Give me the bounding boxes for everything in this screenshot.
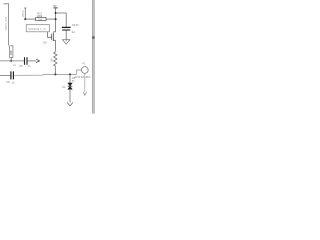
svg-text:1u: 1u [72,30,76,34]
svg-text:C8: C8 [6,80,10,84]
svg-text:C171: C171 [72,23,79,27]
ground (arrow small) [83,92,86,95]
wire [28,60,37,62]
wire antenna down [84,73,86,92]
svg-text:P1: P1 [82,61,86,65]
wire top-left corner net [4,4,9,46]
resistor R17 [36,11,46,21]
wire [46,18,56,20]
capacitor C6 [19,57,31,68]
ground (triangle) [63,40,70,44]
wire [54,67,56,74]
node junction [55,12,57,14]
node junction [54,73,56,75]
wire to C171 [56,13,67,27]
wire 5V column [55,8,57,32]
ground (arrow) [67,102,73,106]
node junction [69,73,71,75]
svg-text:VBUS_5V0: VBUS_5V0 [4,16,8,30]
capacitor C171 [62,23,79,34]
node on sheet line [92,36,94,39]
svg-text:VBUS: VBUS [22,10,25,17]
svg-text:ANTENNA: ANTENNA [74,75,90,79]
wire [25,18,35,20]
capacitor C8 [0,71,15,84]
power flag 5V [53,4,58,8]
resistor R8 (zigzag) [50,51,57,68]
wire [65,30,67,41]
svg-text:MOSFET_N: MOSFET_N [28,27,45,31]
svg-text:C6: C6 [19,64,23,68]
node junction [55,18,57,20]
fuse F1 [9,46,13,61]
svg-text:10R: 10R [9,50,13,55]
transistor Q4 [43,32,55,51]
node junction [24,18,26,20]
wire RF line [14,70,82,75]
label box MOSFET_N [26,25,51,38]
antenna connector P1 [81,61,88,73]
wire mid-left [0,60,24,62]
net stub with label [22,8,26,20]
diode D9 (TVS) [62,74,75,102]
off-sheet arrow [36,59,39,62]
svg-text:10k: 10k [50,58,54,63]
node junction [10,60,12,62]
sheet edge line right [92,0,94,114]
